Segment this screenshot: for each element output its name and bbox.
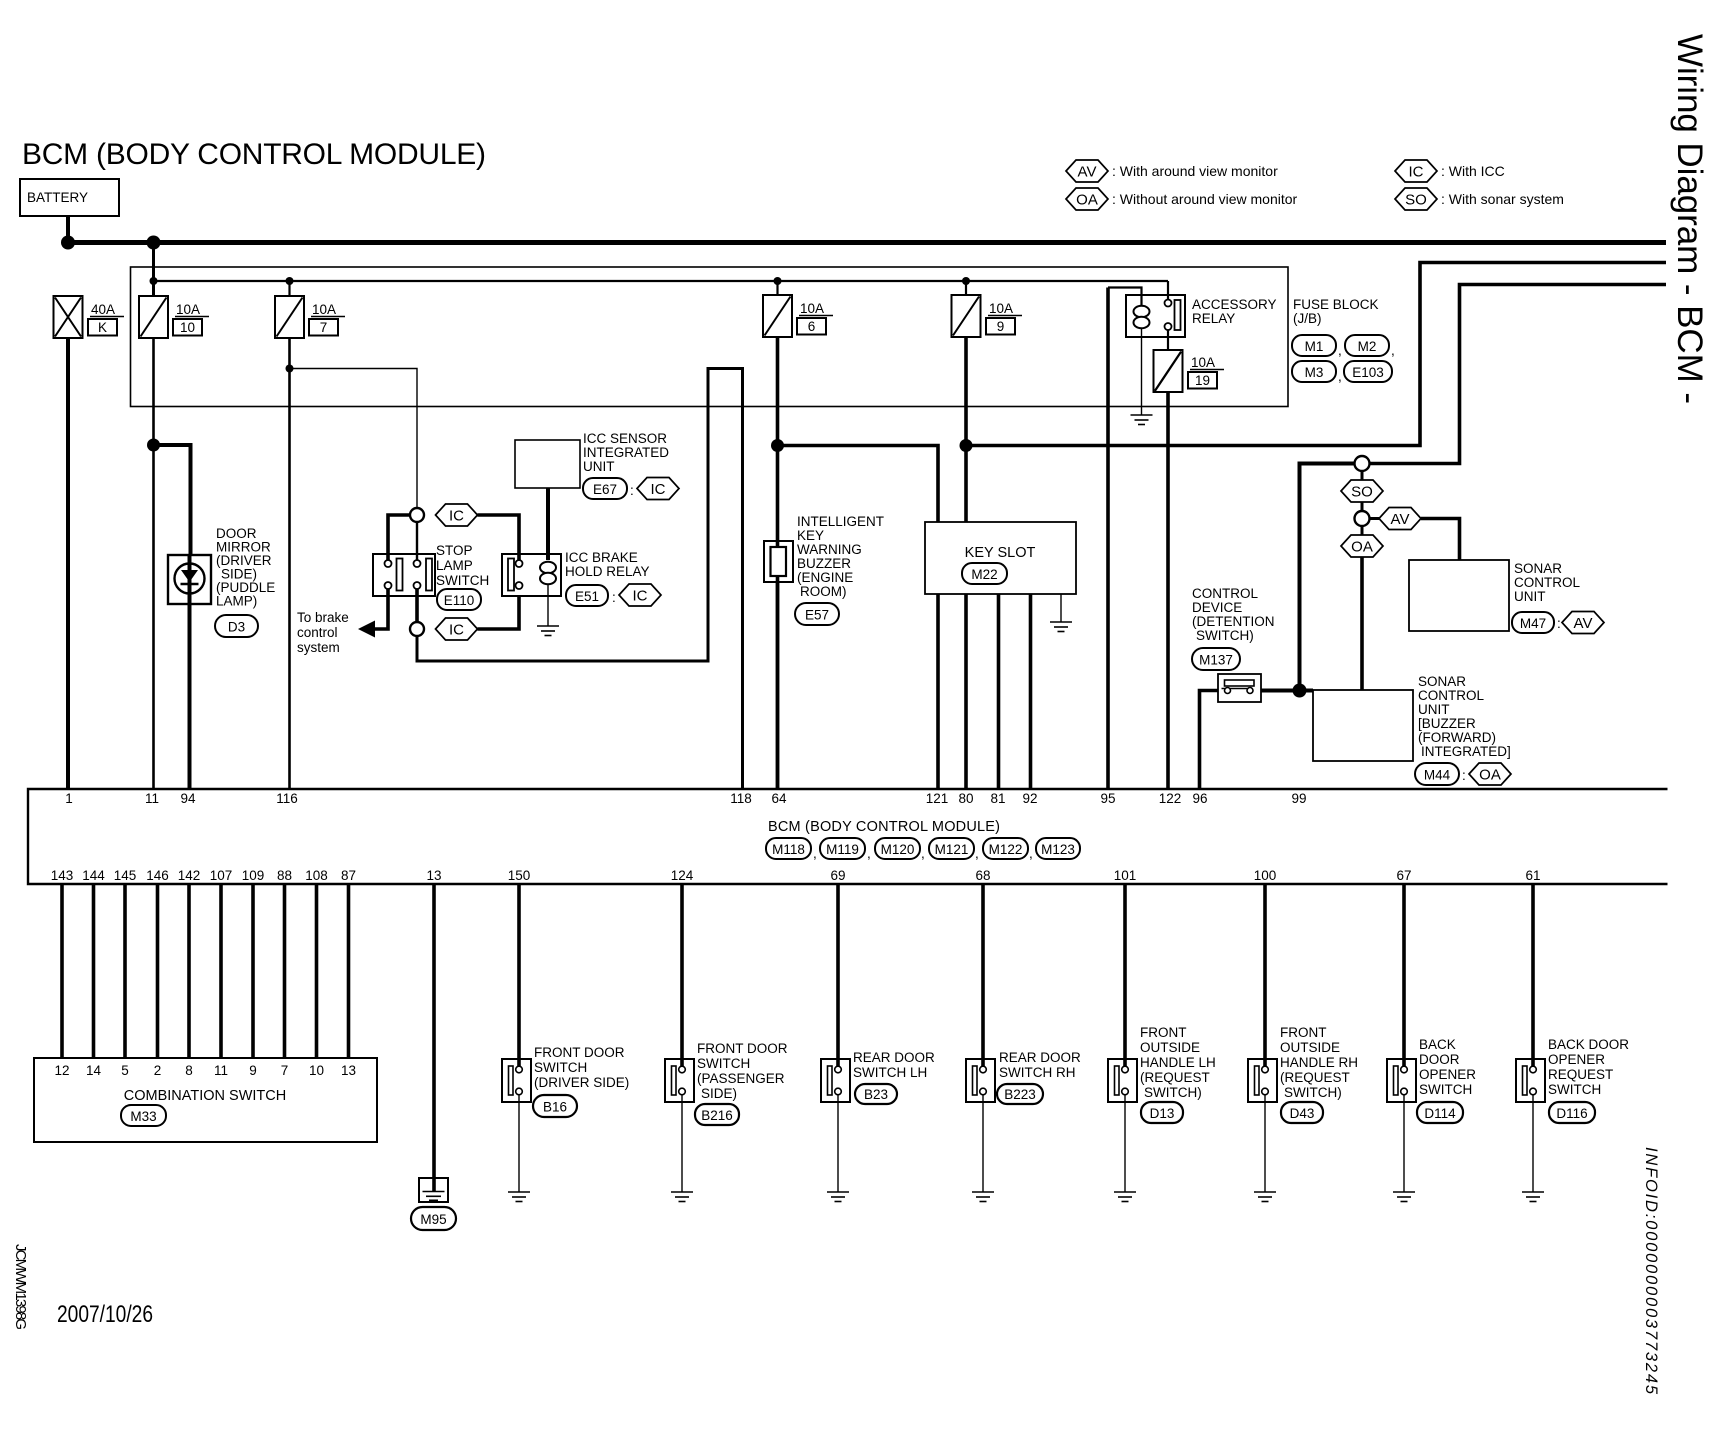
svg-text:FRONT DOOR: FRONT DOOR bbox=[534, 1045, 625, 1060]
wire relay contact to fuse19 bbox=[1167, 330, 1169, 350]
intelligent key warning buzzer E57 bbox=[764, 541, 793, 582]
connector D43 bbox=[1281, 1102, 1323, 1123]
svg-text:INTELLIGENT: INTELLIGENT bbox=[797, 514, 884, 529]
wire fuse6 drop bbox=[776, 281, 778, 295]
svg-text:(J/B): (J/B) bbox=[1293, 311, 1322, 326]
ground D43 bbox=[1254, 1192, 1276, 1202]
wire relay coil ground bbox=[547, 584, 549, 626]
rear door switch LH B23 bbox=[821, 1059, 850, 1102]
svg-text:10A: 10A bbox=[800, 301, 824, 316]
svg-text:system: system bbox=[297, 640, 340, 655]
svg-text:STOP: STOP bbox=[436, 543, 473, 558]
wire pin107 bbox=[219, 884, 223, 1058]
junction stop lamp feed bbox=[286, 365, 294, 373]
wire bus to relay contact bbox=[1167, 281, 1169, 299]
svg-text:INTEGRATED: INTEGRATED bbox=[583, 445, 669, 460]
svg-text:KEY SLOT: KEY SLOT bbox=[965, 545, 1036, 561]
svg-text:SWITCH): SWITCH) bbox=[1284, 1085, 1342, 1100]
wire IC to ICC relay contact low bbox=[478, 596, 520, 629]
svg-text:IC: IC bbox=[633, 588, 648, 605]
connector M122 bbox=[983, 838, 1033, 861]
svg-text:LAMP: LAMP bbox=[436, 558, 473, 573]
svg-text:SWITCH LH: SWITCH LH bbox=[853, 1065, 927, 1080]
svg-text:8: 8 bbox=[185, 1063, 193, 1078]
fuse number box 19 bbox=[1188, 372, 1217, 389]
label FRONT OUTSIDE HANDLE RH (REQUEST SWITCH) bbox=[1280, 1025, 1358, 1100]
svg-text:E110: E110 bbox=[444, 593, 475, 608]
label REAR DOOR SWITCH LH bbox=[853, 1050, 935, 1080]
BCM (body control module) box bbox=[28, 789, 1668, 884]
connector D116 bbox=[1549, 1102, 1595, 1123]
wire SO to node bbox=[1361, 502, 1364, 511]
svg-text:95: 95 bbox=[1100, 791, 1115, 806]
svg-text:(DETENTION: (DETENTION bbox=[1192, 614, 1275, 629]
node stop lamp lower junction bbox=[410, 622, 424, 636]
wire pin124 to front door switch passenger bbox=[680, 884, 684, 1059]
wire pin116 from fuse 7 bbox=[288, 338, 291, 789]
svg-text:10: 10 bbox=[309, 1063, 324, 1078]
ground ICC relay bbox=[537, 626, 559, 636]
svg-text:OUTSIDE: OUTSIDE bbox=[1140, 1040, 1200, 1055]
ground relay coil bbox=[1131, 415, 1153, 425]
svg-text:FRONT DOOR: FRONT DOOR bbox=[697, 1041, 788, 1056]
svg-text:(DRIVER SIDE): (DRIVER SIDE) bbox=[534, 1075, 629, 1090]
label CONTROL DEVICE (DETENTION SWITCH) bbox=[1192, 586, 1275, 643]
rear door switch RH B223 bbox=[966, 1059, 995, 1102]
wire pin88 bbox=[283, 884, 287, 1058]
svg-text:10: 10 bbox=[180, 320, 195, 335]
fuse 10A 19 bbox=[1154, 350, 1183, 392]
svg-text:BCM (BODY CONTROL MODULE): BCM (BODY CONTROL MODULE) bbox=[768, 819, 1000, 835]
svg-text:ICC SENSOR: ICC SENSOR bbox=[583, 431, 667, 446]
svg-text:IC: IC bbox=[449, 622, 464, 639]
svg-text:K: K bbox=[98, 320, 107, 335]
ground D116 bbox=[1522, 1192, 1544, 1202]
back door opener switch D114 bbox=[1387, 1059, 1416, 1102]
svg-text:B16: B16 bbox=[543, 1100, 567, 1115]
svg-text:67: 67 bbox=[1396, 868, 1411, 883]
svg-text:SWITCH: SWITCH bbox=[1548, 1082, 1601, 1097]
svg-text:6: 6 bbox=[808, 319, 816, 334]
wire pin87 bbox=[347, 884, 351, 1058]
label FRONT DOOR SWITCH (DRIVER SIDE) bbox=[534, 1045, 629, 1090]
svg-text:WARNING: WARNING bbox=[797, 542, 862, 557]
connector B23 bbox=[855, 1084, 897, 1104]
front outside handle RH (request switch) D43 bbox=[1248, 1059, 1277, 1102]
svg-text:(REQUEST: (REQUEST bbox=[1280, 1070, 1350, 1085]
svg-text:,: , bbox=[1338, 343, 1342, 358]
fuse number box 6 bbox=[797, 318, 826, 335]
wire pin92 bbox=[1029, 594, 1033, 789]
svg-text:,: , bbox=[813, 846, 817, 861]
svg-text:107: 107 bbox=[210, 868, 233, 883]
fuse number box 10 bbox=[173, 319, 202, 336]
symbol AV for M47 bbox=[1562, 612, 1604, 634]
svg-text:DOOR: DOOR bbox=[1419, 1052, 1460, 1067]
svg-text:SWITCH RH: SWITCH RH bbox=[999, 1065, 1076, 1080]
svg-text:,: , bbox=[975, 846, 979, 861]
svg-text:13: 13 bbox=[426, 868, 441, 883]
svg-text:CONTROL: CONTROL bbox=[1514, 575, 1580, 590]
svg-text:CONTROL: CONTROL bbox=[1192, 586, 1258, 601]
fuse 10A 6 bbox=[763, 295, 792, 337]
wire key slot feed 1 bbox=[778, 446, 939, 523]
svg-text:10A: 10A bbox=[1191, 355, 1215, 370]
wire to SO bbox=[1361, 471, 1364, 480]
node fuse6 feed bbox=[774, 277, 782, 285]
svg-text:OPENER: OPENER bbox=[1419, 1067, 1476, 1082]
svg-text:69: 69 bbox=[830, 868, 845, 883]
wire pin145 bbox=[123, 884, 127, 1058]
node option split SO bbox=[1355, 456, 1370, 471]
svg-text:(ENGINE: (ENGINE bbox=[797, 570, 853, 585]
label ICC SENSOR INTEGRATED UNIT bbox=[583, 431, 669, 474]
sonar control unit buzzer M44 box bbox=[1313, 690, 1413, 761]
svg-text:B216: B216 bbox=[701, 1108, 733, 1123]
svg-text:118: 118 bbox=[730, 791, 752, 806]
svg-text:M1: M1 bbox=[1305, 339, 1324, 354]
svg-text:RELAY: RELAY bbox=[1192, 311, 1235, 326]
symbol IC lower bbox=[436, 618, 478, 640]
symbol SO bbox=[1341, 480, 1383, 502]
svg-text:64: 64 bbox=[771, 791, 787, 806]
svg-text:M121: M121 bbox=[935, 842, 969, 857]
wire fuse9 to key slot bbox=[964, 337, 968, 522]
node stop lamp upper junction bbox=[410, 508, 424, 522]
svg-text:14: 14 bbox=[86, 1063, 102, 1078]
connector E103 bbox=[1338, 361, 1392, 384]
legend symbol SO bbox=[1395, 188, 1437, 210]
svg-text:(FORWARD): (FORWARD) bbox=[1418, 730, 1496, 745]
svg-text:99: 99 bbox=[1291, 791, 1306, 806]
svg-text:144: 144 bbox=[82, 868, 105, 883]
svg-text:SWITCH: SWITCH bbox=[1419, 1082, 1472, 1097]
svg-text:13: 13 bbox=[341, 1063, 356, 1078]
label BACK DOOR OPENER SWITCH bbox=[1419, 1037, 1476, 1097]
svg-text:61: 61 bbox=[1525, 868, 1540, 883]
svg-text:SONAR: SONAR bbox=[1418, 674, 1466, 689]
svg-text:M122: M122 bbox=[989, 842, 1023, 857]
svg-text:REQUEST: REQUEST bbox=[1548, 1067, 1613, 1082]
wire B16 ground bbox=[518, 1095, 520, 1192]
svg-text:100: 100 bbox=[1254, 868, 1277, 883]
label DOOR MIRROR (DRIVER SIDE) (PUDDLE LAMP) bbox=[216, 526, 275, 609]
svg-text:CONTROL: CONTROL bbox=[1418, 688, 1484, 703]
connector M95 bbox=[411, 1207, 456, 1230]
door mirror (driver side) (puddle lamp) D3 bbox=[168, 555, 211, 604]
svg-text:SWITCH: SWITCH bbox=[697, 1056, 750, 1071]
svg-text:FRONT: FRONT bbox=[1280, 1025, 1327, 1040]
ground B223 bbox=[972, 1192, 994, 1202]
svg-text:[BUZZER: [BUZZER bbox=[1418, 716, 1476, 731]
arrow to brake control system bbox=[358, 621, 375, 638]
svg-text::: : bbox=[630, 483, 634, 498]
wire to stop lamp left pole bbox=[388, 515, 410, 560]
svg-text:80: 80 bbox=[958, 791, 973, 806]
wire third feed right bbox=[1370, 285, 1667, 464]
node fuse10 feed bbox=[150, 277, 158, 285]
svg-text:94: 94 bbox=[180, 791, 196, 806]
wire fuse6 to buzzer and pin64 bbox=[776, 337, 780, 789]
wire pin143 to combination switch bbox=[60, 884, 64, 1058]
battery bbox=[20, 179, 119, 216]
value label 10A bbox=[311, 302, 345, 317]
junction pin99 bbox=[1293, 684, 1307, 698]
wire stop lamp feed bbox=[290, 369, 418, 509]
wire relay coil ground stem bbox=[1141, 328, 1143, 415]
label BACK DOOR OPENER REQUEST SWITCH bbox=[1548, 1037, 1629, 1097]
ground D114 bbox=[1393, 1192, 1415, 1202]
svg-text:146: 146 bbox=[146, 868, 169, 883]
svg-text:: With sonar system: : With sonar system bbox=[1441, 191, 1564, 207]
wire pin95 bbox=[1106, 288, 1110, 790]
connector E51 bbox=[566, 585, 616, 606]
wire D13 ground bbox=[1124, 1095, 1126, 1192]
fuse 10A 9 bbox=[952, 295, 981, 337]
svg-text:121: 121 bbox=[926, 791, 949, 806]
svg-text:109: 109 bbox=[242, 868, 265, 883]
wire pin146 bbox=[156, 884, 160, 1058]
wire pin96 bbox=[1200, 691, 1219, 790]
wire AV to sonar control unit bbox=[1421, 519, 1460, 561]
key slot M22 bbox=[925, 522, 1076, 594]
svg-text:,: , bbox=[1029, 846, 1033, 861]
wire B216 ground bbox=[681, 1095, 683, 1192]
svg-text:B23: B23 bbox=[864, 1087, 888, 1102]
svg-text:SO: SO bbox=[1405, 192, 1427, 209]
connector M2 bbox=[1338, 335, 1395, 358]
svg-text:UNIT: UNIT bbox=[1418, 702, 1450, 717]
wire pin67 to back door opener switch bbox=[1402, 884, 1406, 1059]
svg-text:REAR DOOR: REAR DOOR bbox=[999, 1050, 1081, 1065]
svg-text:101: 101 bbox=[1114, 868, 1137, 883]
svg-text:150: 150 bbox=[508, 868, 531, 883]
connector B223 bbox=[997, 1084, 1043, 1104]
ground B23 bbox=[827, 1192, 849, 1202]
svg-text:UNIT: UNIT bbox=[1514, 589, 1546, 604]
combination switch M33 box bbox=[34, 1058, 377, 1142]
svg-text:87: 87 bbox=[341, 868, 356, 883]
svg-text:DEVICE: DEVICE bbox=[1192, 600, 1242, 615]
svg-text:40A: 40A bbox=[91, 302, 115, 317]
fuse 40A K bbox=[54, 296, 83, 338]
label To brake control system bbox=[297, 610, 349, 655]
svg-text:M95: M95 bbox=[420, 1212, 446, 1227]
wire pin121 bbox=[936, 594, 940, 789]
symbol IC upper bbox=[436, 504, 478, 526]
svg-text::: : bbox=[612, 590, 616, 605]
svg-text:,: , bbox=[867, 846, 871, 861]
label INTELLIGENT KEY WARNING BUZZER (ENGINE ROOM) bbox=[797, 514, 884, 599]
svg-text:M137: M137 bbox=[1199, 653, 1233, 668]
connector M3 bbox=[1292, 361, 1336, 382]
accessory relay U1 bbox=[1126, 295, 1185, 337]
front outside handle LH (request switch) D13 bbox=[1108, 1059, 1137, 1102]
wire OA to sonar buzzer unit bbox=[1360, 557, 1364, 690]
svg-text:D43: D43 bbox=[1290, 1106, 1315, 1121]
svg-text:control: control bbox=[297, 625, 338, 640]
svg-text:10A: 10A bbox=[989, 301, 1013, 316]
fuse number box 7 bbox=[309, 319, 338, 336]
svg-text:2: 2 bbox=[154, 1063, 162, 1078]
svg-text::: : bbox=[1462, 768, 1466, 783]
stop lamp switch E110 bbox=[373, 554, 435, 596]
svg-text:HANDLE LH: HANDLE LH bbox=[1140, 1055, 1216, 1070]
fuse block (J/B) outline bbox=[131, 267, 1289, 407]
wire pin68 to rear door switch RH bbox=[981, 884, 985, 1059]
svg-text:7: 7 bbox=[281, 1063, 289, 1078]
svg-text:OA: OA bbox=[1351, 539, 1373, 556]
wire pin122 bbox=[1166, 393, 1170, 789]
svg-text:M3: M3 bbox=[1305, 365, 1324, 380]
legend symbol IC bbox=[1395, 160, 1437, 182]
svg-text:D114: D114 bbox=[1424, 1106, 1456, 1121]
svg-text:M123: M123 bbox=[1041, 842, 1075, 857]
svg-text:108: 108 bbox=[305, 868, 328, 883]
wire pin80 bbox=[964, 594, 968, 789]
wire to AV bbox=[1370, 517, 1380, 520]
svg-text:M120: M120 bbox=[881, 842, 915, 857]
svg-text:: With ICC: : With ICC bbox=[1441, 163, 1505, 179]
svg-text:116: 116 bbox=[276, 791, 298, 806]
wire pin69 to rear door switch LH bbox=[836, 884, 840, 1059]
svg-text:88: 88 bbox=[277, 868, 292, 883]
wire pin64 bbox=[776, 582, 780, 789]
connector D3 bbox=[215, 615, 258, 637]
svg-text:,: , bbox=[1391, 343, 1395, 358]
label ICC BRAKE HOLD RELAY bbox=[565, 550, 650, 579]
connector M118 bbox=[766, 838, 817, 861]
svg-text:ROOM): ROOM) bbox=[800, 584, 847, 599]
wire pin1 from fuse K bbox=[66, 338, 70, 789]
svg-text:SWITCH): SWITCH) bbox=[1144, 1085, 1202, 1100]
connector M1 bbox=[1292, 335, 1336, 356]
connector E110 bbox=[437, 589, 481, 610]
wire stop lamp to pin 118 bbox=[417, 369, 743, 790]
svg-text:FRONT: FRONT bbox=[1140, 1025, 1187, 1040]
svg-text:2007/10/26: 2007/10/26 bbox=[57, 1301, 153, 1328]
wire pin142 bbox=[187, 884, 191, 1058]
svg-text:UNIT: UNIT bbox=[583, 459, 615, 474]
symbol IC for E51 bbox=[619, 584, 661, 606]
svg-text:5: 5 bbox=[121, 1063, 129, 1078]
wire branch to door mirror bbox=[154, 445, 191, 555]
svg-text:OPENER: OPENER bbox=[1548, 1052, 1605, 1067]
wire right feed to top right bbox=[966, 263, 1666, 446]
value label 10A bbox=[988, 301, 1022, 316]
node fuse9 feed bbox=[962, 277, 970, 285]
ground D13 bbox=[1114, 1192, 1136, 1202]
junction fuse9/right feed bbox=[960, 439, 973, 452]
svg-text:145: 145 bbox=[114, 868, 137, 883]
svg-text:: Without around view monitor: : Without around view monitor bbox=[1112, 191, 1298, 207]
svg-text:BACK DOOR: BACK DOOR bbox=[1548, 1037, 1629, 1052]
node option split AV/OA bbox=[1355, 511, 1370, 526]
wire pin109 bbox=[251, 884, 255, 1058]
svg-text:ACCESSORY: ACCESSORY bbox=[1192, 297, 1277, 312]
junction door mirror branch bbox=[147, 439, 160, 452]
svg-text:To brake: To brake bbox=[297, 610, 349, 625]
svg-text:,: , bbox=[1338, 369, 1342, 384]
symbol IC for E67 bbox=[637, 478, 679, 500]
svg-text:D116: D116 bbox=[1556, 1106, 1587, 1121]
svg-text:122: 122 bbox=[1159, 791, 1182, 806]
wire B23 ground bbox=[837, 1095, 839, 1192]
svg-text:HOLD RELAY: HOLD RELAY bbox=[565, 564, 650, 579]
svg-text:124: 124 bbox=[671, 868, 694, 883]
svg-text:BCM (BODY CONTROL MODULE): BCM (BODY CONTROL MODULE) bbox=[22, 138, 486, 171]
svg-text:SWITCH): SWITCH) bbox=[1196, 628, 1254, 643]
back door opener request switch D116 bbox=[1516, 1059, 1545, 1102]
connector B16 bbox=[533, 1095, 577, 1117]
wire pin61 to back door opener request switch bbox=[1531, 884, 1535, 1059]
value label 10A bbox=[1190, 355, 1224, 370]
svg-text:81: 81 bbox=[990, 791, 1005, 806]
main battery bus wire bbox=[66, 240, 1667, 245]
svg-text:E57: E57 bbox=[805, 608, 829, 623]
fuse 10A 10 bbox=[139, 296, 168, 338]
connector M120 bbox=[875, 838, 925, 861]
svg-text:M22: M22 bbox=[971, 567, 997, 582]
svg-text:M118: M118 bbox=[772, 842, 805, 857]
svg-text:OA: OA bbox=[1076, 192, 1098, 209]
svg-text:11: 11 bbox=[214, 1063, 228, 1078]
svg-text:INFOID:0000000003773245: INFOID:0000000003773245 bbox=[1642, 1147, 1660, 1395]
wire pin99 corner feed bbox=[1300, 464, 1355, 692]
label ACCESSORY RELAY bbox=[1192, 297, 1277, 326]
svg-text:(REQUEST: (REQUEST bbox=[1140, 1070, 1210, 1085]
label REAR DOOR SWITCH RH bbox=[999, 1050, 1081, 1080]
svg-text:M44: M44 bbox=[1424, 768, 1451, 783]
wire key slot ground stem bbox=[1060, 594, 1062, 622]
svg-text:SWITCH: SWITCH bbox=[436, 573, 489, 588]
wire circle into switch right pole bbox=[416, 522, 418, 560]
value label 10A bbox=[175, 302, 209, 317]
svg-text:IC: IC bbox=[651, 481, 666, 498]
front door switch (passenger side) B216 bbox=[665, 1059, 694, 1102]
svg-text:E67: E67 bbox=[593, 482, 617, 497]
value label 10A bbox=[799, 301, 833, 316]
legend symbol AV bbox=[1066, 160, 1108, 182]
wire D43 ground bbox=[1264, 1095, 1266, 1192]
svg-text:D3: D3 bbox=[228, 620, 245, 635]
wire fuse9 drop bbox=[965, 281, 967, 295]
wire pin101 to front outside handle LH bbox=[1123, 884, 1127, 1059]
wire pin108 bbox=[315, 884, 319, 1058]
wire to brake control system bbox=[375, 589, 388, 629]
svg-text:M2: M2 bbox=[1358, 339, 1377, 354]
svg-text:96: 96 bbox=[1192, 791, 1207, 806]
svg-text:11: 11 bbox=[145, 791, 159, 806]
label SONAR CONTROL UNIT [BUZZER (FORWARD) INTEGRATED] bbox=[1418, 674, 1511, 759]
svg-text:AV: AV bbox=[1078, 164, 1097, 181]
svg-text:HANDLE RH: HANDLE RH bbox=[1280, 1055, 1358, 1070]
legend symbol OA bbox=[1066, 188, 1108, 210]
svg-text:SONAR: SONAR bbox=[1514, 561, 1562, 576]
svg-text:IC: IC bbox=[1409, 164, 1424, 181]
sonar control unit M47 box bbox=[1409, 560, 1509, 631]
svg-text:OUTSIDE: OUTSIDE bbox=[1280, 1040, 1340, 1055]
ground B16 bbox=[508, 1192, 530, 1202]
connector D13 bbox=[1141, 1102, 1183, 1123]
wire ICC sensor to relay coil bbox=[546, 488, 550, 560]
node fuse7 feed bbox=[286, 277, 294, 285]
label FRONT OUTSIDE HANDLE LH (REQUEST SWITCH) bbox=[1140, 1025, 1216, 1100]
svg-text:M47: M47 bbox=[1520, 616, 1546, 631]
svg-text:Wiring Diagram - BCM -: Wiring Diagram - BCM - bbox=[1670, 34, 1709, 404]
svg-text:: With around view monitor: : With around view monitor bbox=[1112, 163, 1278, 179]
fuse row bus wire bbox=[154, 280, 1169, 282]
